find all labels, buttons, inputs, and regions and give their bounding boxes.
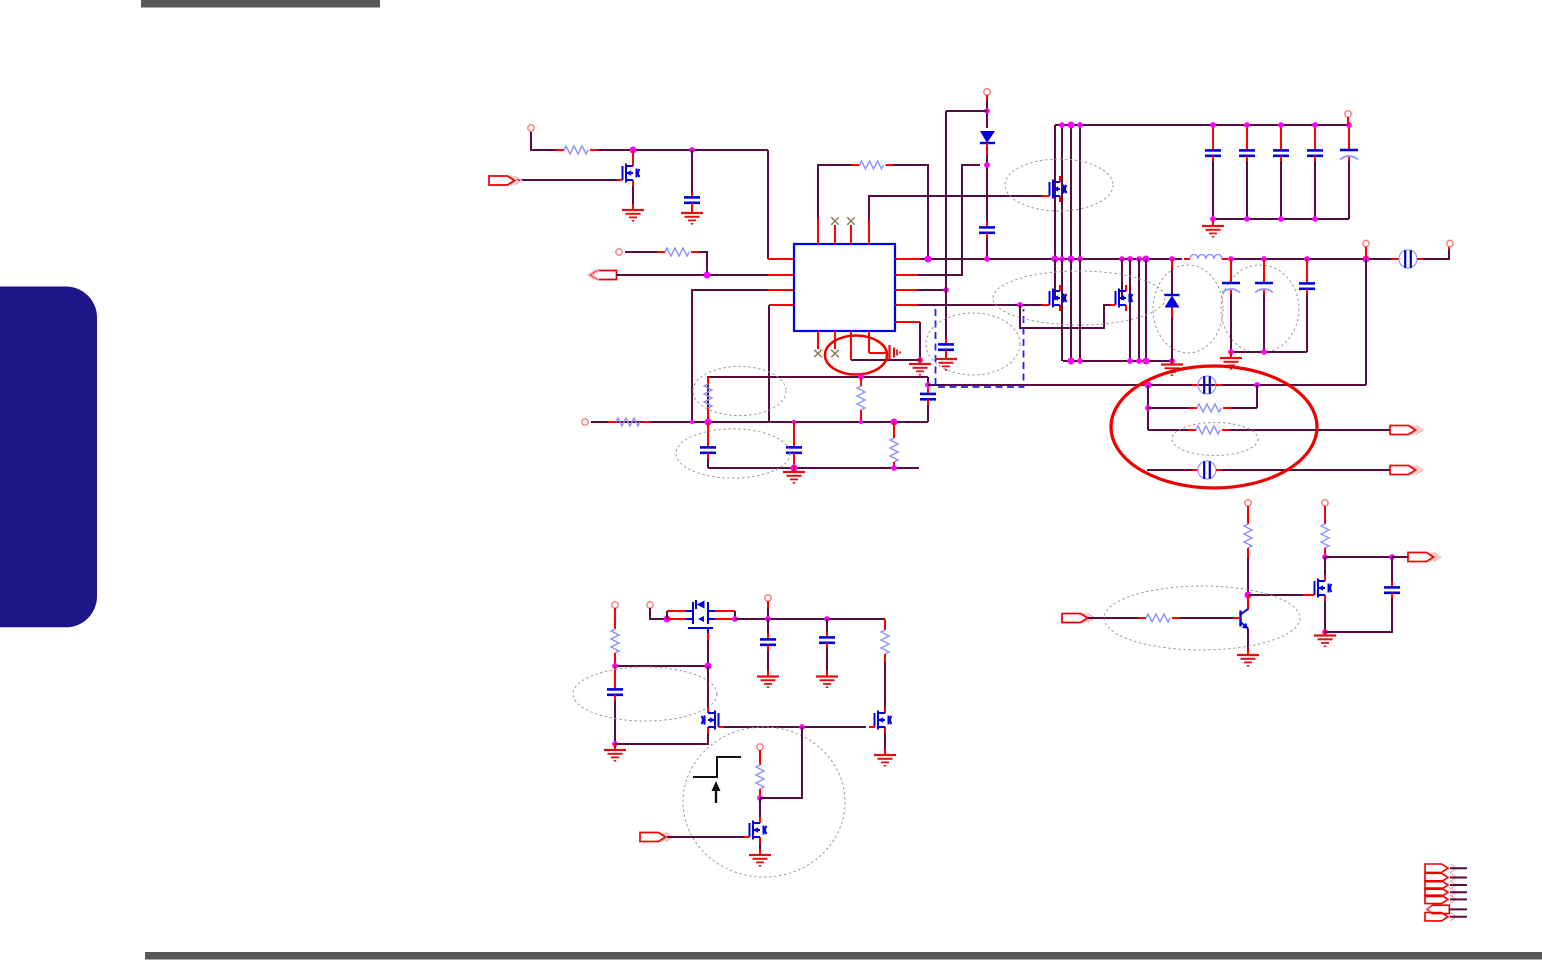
junction dots source bus <box>1068 358 1175 365</box>
wire bundle B vertical 3 <box>1138 259 1140 361</box>
gray ellipse around R4 <box>693 366 786 415</box>
pin P12 <box>1245 500 1251 506</box>
junction <box>1322 554 1328 560</box>
wire <box>598 149 768 151</box>
junction <box>925 382 931 388</box>
gray ellipse around C15 <box>573 667 717 721</box>
capacitor C15 <box>607 684 623 701</box>
left side tab <box>0 287 97 628</box>
wire bead to pin <box>1423 250 1449 259</box>
dashed box <box>936 309 1024 387</box>
junction <box>757 795 763 801</box>
no-connect <box>831 217 839 225</box>
wire EN to IC <box>616 274 768 276</box>
resistor R8 <box>1189 404 1231 412</box>
wire red lead IC right pin2 <box>895 274 918 276</box>
wire connector to Q8 gate <box>667 836 744 838</box>
junction R7 top <box>891 419 898 426</box>
wire corner pin1 <box>818 165 852 218</box>
junction dots top rail <box>1210 122 1352 128</box>
junction <box>943 287 949 293</box>
ground Q7 <box>874 749 896 766</box>
junction <box>612 663 618 669</box>
wire bundle A vertical 3 <box>1070 259 1072 361</box>
connector OUT-B <box>1390 466 1423 475</box>
pin P6 <box>1447 240 1453 246</box>
wire red lead IC right pin1 <box>895 258 920 260</box>
transistor Q9 pmos <box>1309 557 1332 601</box>
junction R5 top <box>858 374 864 380</box>
wire P12 down <box>1247 506 1249 524</box>
transistor Q10 npn <box>1233 595 1248 654</box>
ground <box>604 744 626 761</box>
junction C3 bottom <box>791 465 798 472</box>
wire C2 bottom <box>707 459 709 469</box>
junction <box>704 272 711 279</box>
wire bundle A vertical 2 <box>1061 259 1063 361</box>
junction sense left <box>1145 382 1152 389</box>
diode D2 <box>1165 259 1180 361</box>
junction x793 <box>792 420 796 424</box>
wire red lead IC bottom pin2 nc <box>834 331 836 349</box>
capacitor C5 <box>979 222 995 239</box>
wire C3 bottom <box>793 459 795 469</box>
wire red lead Q9 gate <box>1303 594 1311 596</box>
ground C17 <box>816 671 838 688</box>
connector EN <box>588 271 617 280</box>
capacitor C3 <box>786 442 802 459</box>
junction <box>1245 592 1252 599</box>
wire C2 top <box>707 422 709 442</box>
wire bundle vertical 2 <box>1061 125 1063 259</box>
junction <box>705 663 712 670</box>
connector CTRL-IN <box>1062 614 1095 623</box>
pin P4 <box>984 89 990 95</box>
wire IC bottom pin4 <box>868 331 870 353</box>
pin P11 <box>757 744 763 750</box>
wire bead2 to connector <box>1222 469 1390 471</box>
wire pin5 to ground <box>919 322 921 360</box>
capacitor C14 <box>1299 259 1315 352</box>
resistor R5 vertical <box>857 377 865 422</box>
ferrite bead FB1 <box>1393 250 1423 268</box>
junction rail-x927 <box>925 256 932 263</box>
junction <box>799 724 805 730</box>
wire pin3 to node <box>918 289 946 291</box>
junction <box>1077 122 1083 128</box>
wire mid row <box>724 726 866 728</box>
capacitor C11 polarized <box>1340 125 1358 219</box>
junction <box>917 357 923 363</box>
junction dots bottom bus <box>1210 216 1318 222</box>
resistor R15 vertical <box>1321 524 1329 557</box>
wire bundle B vertical 1 <box>1121 259 1123 300</box>
inductor L1 <box>1184 254 1228 259</box>
wire red lead IC right pin4 <box>895 304 918 306</box>
wire R3 right <box>893 165 928 259</box>
wire C4 bottom to mid rail <box>927 405 929 422</box>
resistor R7 vertical <box>890 422 898 468</box>
wire bundle vertical 1 <box>1054 125 1056 259</box>
wire Q6 source to C15 node <box>615 733 708 744</box>
transistor Q6 <box>702 666 725 733</box>
junction <box>1228 349 1234 355</box>
connector CN7 <box>1425 913 1467 921</box>
connector CN4 <box>1425 888 1467 896</box>
capacitor C2 <box>700 442 716 459</box>
wire gate drive net <box>918 304 1042 306</box>
pin P8 <box>612 602 618 608</box>
gray ellipse around C2 C3 <box>676 429 790 478</box>
wire cap bank bottom bus <box>1213 218 1349 220</box>
wire IC bottom pin3 <box>850 331 852 360</box>
ground <box>783 466 805 483</box>
wire output right vertical <box>1365 259 1367 385</box>
transistor Q5 pmos horizontal <box>667 600 735 640</box>
wire pin stub <box>768 258 794 260</box>
wire P8 down <box>614 608 616 629</box>
resistor R1 <box>556 146 598 154</box>
wire C3 top <box>793 422 795 442</box>
wire red lead IC bottom pin1 nc <box>817 331 819 349</box>
ground source bus <box>1161 359 1183 376</box>
capacitor C17 <box>819 619 835 675</box>
ground <box>909 358 931 375</box>
gray ellipse around Q10 <box>1104 586 1300 650</box>
wire Q8 source to ground <box>759 843 761 854</box>
junction <box>664 616 671 623</box>
pin P3 <box>582 419 588 425</box>
transistor Q7 <box>869 662 892 733</box>
wire sense branch <box>760 727 802 798</box>
wire FB net vertical <box>692 290 768 422</box>
wire C15 to ground <box>614 744 616 749</box>
transistor Q3 <box>1042 285 1067 311</box>
wire EN net <box>625 251 662 253</box>
capacitor C9 <box>1273 125 1289 219</box>
capacitor C8 <box>1239 125 1255 219</box>
thermal step symbol black <box>693 757 741 777</box>
wire bundle B vertical 2 <box>1129 259 1131 361</box>
highlight ellipse big red <box>1111 366 1317 488</box>
junction sense right <box>1254 382 1260 388</box>
wire red lead IC right pin3 <box>895 289 918 291</box>
wire diode to junction <box>986 155 988 224</box>
capacitor C18 <box>1384 582 1400 599</box>
op-amp U1 <box>794 244 895 331</box>
wire connector to R14 <box>1088 617 1138 619</box>
wire red lead IC pin4 <box>769 304 794 306</box>
resistor R6 <box>608 418 650 426</box>
wire Q1 drain <box>632 150 634 160</box>
wire long vertical x945 <box>945 111 947 341</box>
wire R8 row <box>1148 407 1189 409</box>
wire U1 top pin3 nc <box>850 225 852 244</box>
junction <box>1389 554 1395 560</box>
junction <box>984 162 990 168</box>
wire C1 top <box>691 150 693 192</box>
gray circle ellipse E9 <box>1221 265 1299 353</box>
connector CN6 left-pointing <box>1426 905 1468 913</box>
resistor R11 vertical <box>881 619 889 662</box>
capacitor C7 <box>1205 125 1221 219</box>
ground output caps <box>1220 352 1242 369</box>
capacitor C16 <box>760 619 776 675</box>
analog ground sideways <box>890 345 901 360</box>
wire main rail VCC <box>920 258 1182 260</box>
junction <box>1145 405 1151 411</box>
capacitor C12 polarized <box>1222 259 1240 352</box>
connector OUT-C <box>1408 553 1441 562</box>
wire left node down <box>1147 385 1149 430</box>
junction <box>689 147 695 153</box>
wire Q9 drain to cap <box>1325 598 1392 632</box>
wire R2 to junction <box>699 252 707 275</box>
diode D1 <box>980 131 995 155</box>
wire R10 node row <box>615 665 708 667</box>
wire IC pin4 left <box>768 305 770 422</box>
wire branch left <box>946 110 987 112</box>
wire net VIN top-left <box>531 131 558 150</box>
resistor R3 <box>852 161 894 169</box>
ground Q9 <box>1314 630 1336 647</box>
wire pin stub red <box>1448 247 1450 251</box>
wire R9 row to connector <box>1148 429 1188 431</box>
ground <box>681 207 703 224</box>
gray ellipse around R9 <box>1172 423 1258 456</box>
pin P9 <box>647 602 653 608</box>
wire P13 node to connector node <box>1325 556 1392 558</box>
capacitor C10 <box>1307 125 1323 219</box>
ground <box>935 353 957 370</box>
wire R8 right <box>1231 407 1257 409</box>
wire P10 stub <box>767 601 769 608</box>
gray circle ellipse E8 <box>1153 265 1223 353</box>
resistor R14 <box>1138 614 1180 622</box>
junction <box>1068 122 1075 129</box>
wire R13 to collector node <box>1247 558 1249 595</box>
wire top rail bottom-left <box>735 618 885 620</box>
resistor R12 vertical <box>756 765 764 798</box>
capacitor C13 polarized <box>1255 259 1273 352</box>
gray ellipse in dashed box <box>926 313 1020 375</box>
connector IN1 <box>489 176 522 185</box>
wire long output sense line <box>928 384 1366 386</box>
wire pin2 to diode node <box>918 165 980 275</box>
junction x708 <box>705 419 712 426</box>
junction <box>1261 349 1267 355</box>
pin P10 <box>765 595 771 601</box>
wire Q9 source down <box>1324 601 1326 632</box>
wire source bus <box>1063 360 1172 362</box>
wire P7 stub <box>1365 247 1367 260</box>
wire C6 bottom to ground <box>945 355 947 358</box>
junction at rail <box>984 256 990 262</box>
wire main rail VCC right of inductor <box>1230 258 1391 260</box>
gray ellipse around Q3 Q4 <box>993 271 1165 325</box>
transistor Q2 high-side <box>1042 176 1067 202</box>
junction <box>1059 122 1065 128</box>
wire feedback top line <box>708 377 928 422</box>
highlight ellipse small red <box>825 336 887 375</box>
wire output cap bus <box>1231 351 1307 353</box>
wire bundle vertical 3 <box>1070 125 1072 259</box>
no-connect <box>831 350 839 358</box>
resistor R9 <box>1188 426 1230 434</box>
wire bundle A vertical 4 <box>1079 259 1081 361</box>
wire Q1 gate <box>516 179 617 181</box>
no-connect <box>847 217 855 225</box>
junction <box>630 147 637 154</box>
wire gate Q5 down <box>707 640 709 666</box>
junction gate node <box>1017 302 1023 308</box>
wire bundle vertical 4 <box>1079 125 1081 259</box>
wire C15 top <box>614 666 616 684</box>
connector GATE-IN <box>640 833 673 842</box>
wire bundle B vertical 4 <box>1145 259 1147 361</box>
connector OUT-A <box>1390 426 1423 435</box>
wire red lead IC right pin5 <box>895 321 920 323</box>
connector CN2 <box>1425 873 1467 881</box>
capacitor C4 <box>920 388 936 405</box>
pin P1 <box>528 125 534 131</box>
wire bottom bus <box>708 467 919 469</box>
wire P13 down <box>1324 506 1326 524</box>
pin P2 <box>616 249 622 255</box>
junction <box>984 108 990 114</box>
pin P7 on rail <box>1363 240 1369 246</box>
pin P13 <box>1322 500 1328 506</box>
wire C15 bottom <box>614 701 616 745</box>
wire P9 to Q5 <box>650 608 666 619</box>
resistor R13 vertical <box>1244 524 1252 558</box>
wire C1 bottom to ground <box>691 208 693 212</box>
wire to connector <box>1392 556 1408 558</box>
junction <box>765 616 771 622</box>
wire C18 top <box>1391 557 1393 582</box>
resistor R4 vertical <box>704 377 712 422</box>
transistor Q4 <box>1110 285 1133 311</box>
wire bundle A vertical 1 <box>1054 259 1056 300</box>
wire right node down <box>1256 385 1258 408</box>
wire U1 top pin4 <box>868 220 870 244</box>
wire mid rail <box>591 421 928 423</box>
resistor R10 vertical <box>611 629 619 666</box>
wire U1 top pin1 <box>817 218 819 244</box>
connector CN5 <box>1425 895 1467 903</box>
gray circle big <box>683 727 845 877</box>
header bar <box>141 0 380 8</box>
junction x692 <box>690 420 694 424</box>
ground C16 <box>757 671 779 688</box>
connector CN1 <box>1425 864 1467 872</box>
capacitor C1 <box>684 192 700 209</box>
resistor R2 <box>657 248 699 256</box>
ground cap bank <box>1202 220 1224 237</box>
wire pin down <box>986 95 988 101</box>
junction <box>1322 629 1328 635</box>
gray ellipse around Q2 <box>1005 159 1113 211</box>
transistor Q1 <box>617 160 640 186</box>
wire pin4 to analog ground <box>869 352 888 354</box>
ferrite bead FB2 <box>1192 376 1222 394</box>
wire red lead IC pin3 <box>768 289 795 291</box>
wire red lead IC pin2 <box>768 274 794 276</box>
wire R14 to base <box>1180 617 1233 619</box>
wire collector node to Q9 gate <box>1248 594 1303 596</box>
ground Q8 <box>749 849 771 866</box>
wire top rail <box>1055 124 1349 126</box>
wire P5 stub <box>1347 117 1349 125</box>
junction R7 bottom <box>891 465 897 471</box>
wire P11 down <box>759 750 761 765</box>
wire comp node vertical <box>927 377 929 385</box>
pin P5 <box>1345 111 1351 117</box>
wire C5 bottom to rail <box>986 238 988 259</box>
wire BOOT net <box>869 196 1042 220</box>
wire U1 top pin2 nc <box>834 225 836 244</box>
footer bar <box>145 952 1542 960</box>
junction R5 bottom <box>859 420 863 424</box>
junction <box>612 741 618 747</box>
ground <box>622 204 644 221</box>
thermal arrow black <box>712 781 721 803</box>
transistor Q8 <box>744 798 767 843</box>
wire rail to bead <box>1391 258 1399 260</box>
ferrite bead FB3 <box>1192 461 1222 479</box>
wire to IC pin1 <box>767 150 769 259</box>
connector CN3 <box>1425 881 1467 889</box>
wire Q7 source to ground <box>884 733 886 754</box>
ground Q10 emitter <box>1237 649 1259 666</box>
wire gate2 branch <box>1020 305 1110 328</box>
wire pin3 to agnd junction <box>851 359 920 361</box>
wire Q1 source to ground <box>632 186 634 207</box>
junction Q5 right <box>732 616 738 622</box>
capacitor C6 <box>938 339 954 356</box>
no-connect <box>814 350 822 358</box>
wire bead2 row <box>1147 469 1192 471</box>
wire R9 to connector <box>1230 429 1390 431</box>
junction <box>824 616 830 622</box>
